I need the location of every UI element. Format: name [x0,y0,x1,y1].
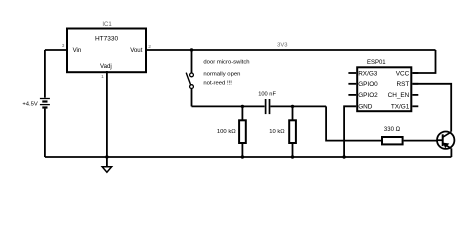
wire capacitor to corner [270,105,326,107]
wire RST to collector [412,84,451,132]
svg-text:+4.5V: +4.5V [22,101,37,107]
svg-text:Vout: Vout [130,47,143,54]
svg-text:100 kΩ: 100 kΩ [217,129,236,135]
wire Vout 3V3 rail [147,49,436,51]
wire emitter to ground bus [450,148,452,157]
IC U1 HT7330 regulator body [67,29,146,73]
wire GND pin to ground bus [344,106,356,157]
svg-text:GND: GND [358,104,373,111]
svg-text:100 nF: 100 nF [258,91,276,97]
svg-text:ESP01: ESP01 [367,60,386,66]
junction GND/ground bus [342,155,345,158]
svg-text:10 kΩ: 10 kΩ [269,129,285,135]
svg-text:door micro-switch: door micro-switch [203,60,249,66]
svg-text:RST: RST [397,81,410,88]
wire R3 to base [404,140,438,142]
wire R1 bottom [241,144,243,157]
wire Vadj to ground bus [106,71,108,157]
svg-text:RX/G3: RX/G3 [358,70,378,77]
svg-text:IC1: IC1 [102,22,112,28]
pin stub GPIO0 [348,83,356,85]
wire R2 bottom [292,144,294,157]
svg-text:1: 1 [101,74,104,80]
svg-text:normally open: normally open [203,72,240,78]
pin stub TX/G1 [412,105,418,107]
resistor R1 100 kΩ body [239,120,246,143]
svg-text:GPIO0: GPIO0 [358,81,378,88]
capacitor C1 100 nF [266,99,270,114]
ground symbol [102,157,111,172]
wire ground bus (bottom) [45,156,452,158]
pin stub CH_EN [412,94,418,96]
pin stub RST [412,83,418,85]
wire battery- down [44,109,46,157]
wire switch to capacitor [192,105,265,107]
switch S1 door micro-switch [186,73,193,89]
ESP01 module U2 body [357,67,411,111]
junction 3V3/switch [190,48,193,51]
svg-text:330 Ω: 330 Ω [384,127,401,133]
transistor Q1 PNP [437,132,454,149]
svg-text:Vin: Vin [73,47,82,54]
svg-text:not-reed !!!: not-reed !!! [203,81,232,87]
wire R1 top [241,106,243,119]
pin stub RX/G3 [348,72,356,74]
svg-text:GPIO2: GPIO2 [358,92,378,99]
wire battery+ to Vin [45,49,67,51]
wire switch top [191,50,193,73]
wire 3V3 down to VCC [412,50,435,73]
junction cap-row / R2 [291,105,294,108]
pin stub GPIO2 [348,94,356,96]
junction R1/ground bus [241,155,244,158]
wire cap-row down to base row [326,106,381,140]
junction R2/ground bus [291,155,294,158]
resistor R3 330 Ω body [382,137,403,144]
svg-text:CH_EN: CH_EN [388,92,410,99]
svg-text:TX/G1: TX/G1 [391,104,410,111]
svg-text:3V3: 3V3 [277,42,287,48]
junction switch-row / R1 [241,105,244,108]
svg-text:HT7330: HT7330 [95,36,119,43]
wire R2 top [292,106,294,119]
pin stub VCC [412,72,418,74]
svg-text:VCC: VCC [396,70,410,77]
resistor R2 10 kΩ body [289,120,296,143]
battery BT1 +4.5V [40,99,50,108]
svg-text:3: 3 [62,43,65,49]
svg-text:Vadj: Vadj [100,63,112,70]
wire switch bottom [191,89,193,107]
wire battery top vertical [44,50,46,98]
junction Vadj/ground bus [105,155,108,158]
